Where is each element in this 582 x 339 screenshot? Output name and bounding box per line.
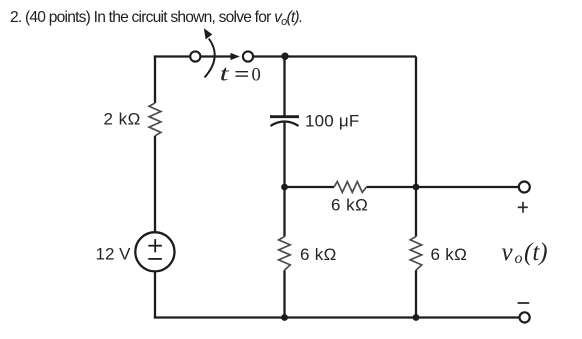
svg-text:t: t	[220, 60, 230, 85]
svg-text:100 μF: 100 μF	[305, 111, 359, 130]
svg-text:2 kΩ: 2 kΩ	[104, 110, 141, 129]
svg-text:2. (40 points) In the circuit: 2. (40 points) In the circuit shown, sol…	[10, 9, 302, 28]
svg-text:6 kΩ: 6 kΩ	[300, 245, 337, 264]
svg-text:0: 0	[252, 65, 261, 85]
svg-text:6 kΩ: 6 kΩ	[331, 196, 368, 215]
svg-text:12 V: 12 V	[96, 245, 132, 264]
svg-text:vo(t): vo(t)	[502, 239, 548, 267]
svg-text:6 kΩ: 6 kΩ	[431, 245, 468, 264]
